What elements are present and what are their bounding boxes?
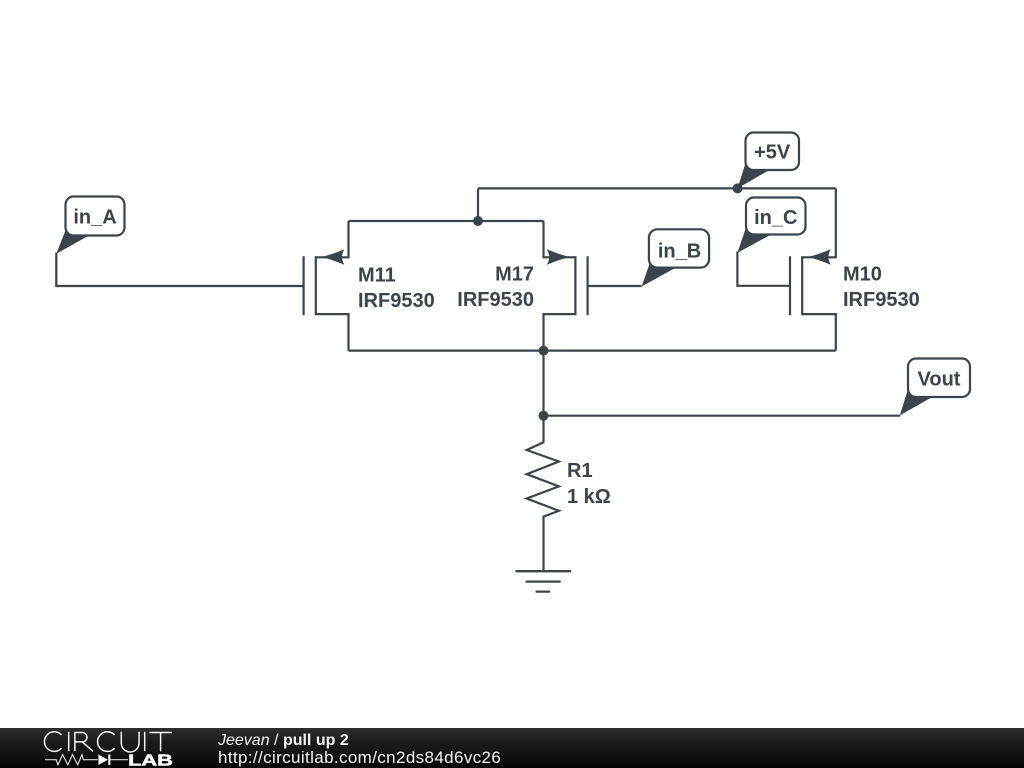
node junction Vout <box>539 411 549 421</box>
ground <box>517 571 571 591</box>
svg-text:R1: R1 <box>567 460 593 482</box>
wire bottom rail to Vout node <box>542 351 544 416</box>
footer CircuitLab logo <box>0 728 210 768</box>
net flag Vout <box>900 359 970 416</box>
svg-text:+5V: +5V <box>754 142 791 164</box>
svg-text:LAB: LAB <box>128 752 173 768</box>
node junction at +5V rail <box>733 183 743 193</box>
M11 source arrow <box>322 249 345 265</box>
transistor M10 <box>790 188 920 350</box>
wire top rail M11-M17 <box>349 220 544 222</box>
net flag +5V <box>738 133 800 189</box>
wire +5V rail <box>478 187 836 189</box>
svg-text:Vout: Vout <box>918 369 961 391</box>
svg-text:in_B: in_B <box>658 241 701 263</box>
transistor M17 <box>457 221 587 351</box>
svg-text:M10: M10 <box>843 264 882 286</box>
svg-text:IRF9530: IRF9530 <box>457 289 534 311</box>
wire in_C to M10 gate <box>737 252 790 286</box>
svg-text:in_C: in_C <box>754 207 797 229</box>
svg-text:IRF9530: IRF9530 <box>358 290 435 312</box>
footer text <box>218 733 349 749</box>
M10 source arrow <box>808 249 831 265</box>
net flag in_C <box>737 198 805 253</box>
wire +5V rail drop to top rail <box>477 188 479 221</box>
svg-text:1 kΩ: 1 kΩ <box>567 486 611 508</box>
svg-text:in_A: in_A <box>73 207 116 229</box>
svg-text:M11: M11 <box>358 265 396 287</box>
wire bottom rail <box>349 350 836 352</box>
wire in_A to M11 gate <box>56 253 303 287</box>
svg-text:IRF9530: IRF9530 <box>843 289 920 311</box>
node junction top rail <box>473 216 483 226</box>
wire Vout <box>544 415 901 417</box>
wire in_B to M17 gate <box>588 285 642 287</box>
footer bar <box>0 728 1024 768</box>
node junction bottom rail <box>539 346 549 356</box>
svg-text:M17: M17 <box>495 264 534 286</box>
net flag in_A <box>56 197 124 254</box>
M17 source arrow <box>547 249 570 265</box>
net flag in_B <box>642 229 710 286</box>
transistor M11 <box>304 221 435 351</box>
resistor R1 <box>527 416 611 571</box>
